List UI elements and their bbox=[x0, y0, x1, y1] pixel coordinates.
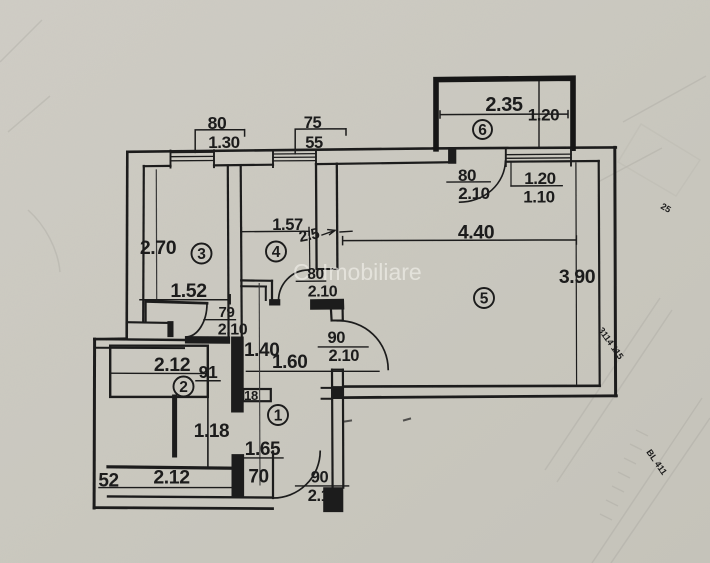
node room 6 circle bbox=[473, 120, 492, 139]
svg-text:2.12: 2.12 bbox=[154, 354, 191, 376]
wall between room 4 and room 5 bbox=[315, 164, 318, 269]
svg-text:3.90: 3.90 bbox=[559, 266, 596, 288]
svg-text:18: 18 bbox=[244, 388, 258, 403]
balcony outer walls bbox=[436, 78, 573, 149]
svg-text:80: 80 bbox=[458, 166, 476, 185]
hall / room5 wall with door 90 bbox=[330, 305, 333, 321]
svg-text:80: 80 bbox=[208, 113, 227, 133]
dimension line 1.65 bbox=[240, 457, 283, 459]
svg-text:91: 91 bbox=[199, 362, 218, 382]
svg-text:2.35: 2.35 bbox=[485, 94, 523, 116]
arrow 2.54 bbox=[322, 230, 352, 235]
window W2 55 top wall bbox=[273, 154, 316, 161]
svg-text:70: 70 bbox=[248, 466, 268, 487]
faint rotated text marks bbox=[596, 201, 672, 477]
svg-text:Imobiliare: Imobiliare bbox=[322, 259, 422, 285]
door arc D79 (room3) bbox=[186, 303, 207, 337]
room 4 bottom wall bbox=[241, 279, 272, 282]
node room 3 circle bbox=[192, 244, 212, 264]
dimension line 90 (door to room5) bbox=[318, 346, 368, 348]
extension line room4 vertical bbox=[308, 231, 310, 268]
svg-text:55: 55 bbox=[305, 134, 323, 152]
svg-text:2.12: 2.12 bbox=[153, 466, 190, 488]
svg-text:3: 3 bbox=[197, 246, 206, 263]
svg-text:1.18: 1.18 bbox=[194, 421, 229, 442]
room 3 bottom wall bbox=[146, 301, 207, 303]
svg-text:2.10: 2.10 bbox=[329, 347, 360, 365]
dimension line 1.52 bbox=[140, 295, 230, 304]
svg-text:1.65: 1.65 bbox=[245, 439, 281, 460]
node room 2 circle bbox=[174, 377, 194, 397]
svg-text:2: 2 bbox=[179, 379, 188, 396]
svg-text:6: 6 bbox=[478, 122, 487, 139]
svg-text:90: 90 bbox=[311, 468, 329, 486]
door arc D90 (hall to room5) bbox=[337, 321, 388, 370]
wire: left outer wall room 3 bbox=[125, 152, 128, 339]
extension line 3.90 vertical bbox=[575, 163, 578, 384]
svg-text:2.70: 2.70 bbox=[140, 237, 177, 259]
dimension line 80 balcony door bbox=[447, 181, 490, 183]
door D80 left jamb foot bbox=[270, 300, 280, 305]
svg-text:1.52: 1.52 bbox=[170, 280, 207, 302]
dimension line 79 bbox=[204, 319, 235, 321]
svg-text:75: 75 bbox=[304, 114, 322, 132]
wire: outer top wall bbox=[128, 147, 616, 151]
wire: bottom outer wall room 5 bbox=[343, 396, 616, 398]
room 2 lower shaft walls bbox=[172, 397, 177, 455]
room 2 bottom wall lines bbox=[108, 467, 235, 468]
wall block hall top-right (door 80 jamb to room5 wall) bbox=[311, 299, 344, 309]
dimension lines 1.20/1.10 window bbox=[511, 185, 562, 187]
svg-text:2.10: 2.10 bbox=[218, 322, 248, 339]
svg-text:1.20: 1.20 bbox=[528, 106, 560, 125]
node room 5 circle bbox=[474, 288, 494, 308]
svg-text:90: 90 bbox=[328, 329, 346, 347]
dimension line 1.60 hall bbox=[246, 370, 379, 372]
dimension bracket 75/55 bbox=[295, 129, 346, 154]
wire: right outer wall room 5 bbox=[613, 147, 617, 395]
hall left wall black band bbox=[232, 337, 244, 412]
svg-text:5: 5 bbox=[480, 291, 489, 308]
svg-text:2.10: 2.10 bbox=[308, 284, 338, 301]
junction cross left extension bbox=[322, 388, 332, 399]
svg-text:4: 4 bbox=[272, 244, 281, 261]
window W1 1.30 top wall bbox=[171, 152, 215, 161]
wire: left inner wall room 3 bbox=[142, 166, 145, 322]
door arc D80 (room4) bbox=[279, 270, 309, 301]
pen marks bbox=[344, 418, 411, 421]
svg-text:2.10: 2.10 bbox=[458, 184, 490, 203]
texts: dimensions bbox=[98, 94, 595, 505]
room 5 bottom wall inner bbox=[344, 384, 600, 387]
room 2 top wall bbox=[94, 337, 126, 340]
room 5 right wall inner bbox=[599, 161, 600, 386]
entry door arc bbox=[273, 451, 320, 498]
dimension line 1.57 bbox=[241, 227, 309, 235]
svg-text:1.20: 1.20 bbox=[524, 169, 556, 188]
balcony door jamb cap bbox=[449, 148, 456, 164]
extension line room3 vertical 2.70 bbox=[155, 170, 157, 300]
svg-text:1.30: 1.30 bbox=[208, 133, 240, 152]
svg-text:1: 1 bbox=[274, 408, 283, 425]
svg-text:52: 52 bbox=[98, 470, 118, 491]
room 2 left outer wall bbox=[93, 339, 97, 508]
wall stub 18 bbox=[243, 389, 271, 401]
dimension line 2.12 (room 2) bbox=[110, 372, 208, 374]
svg-text:79: 79 bbox=[219, 304, 235, 321]
svg-text:1.10: 1.10 bbox=[523, 188, 555, 207]
dimension line 90 entry bbox=[296, 485, 349, 487]
balcony dimension line 2.35 bbox=[440, 111, 568, 118]
dimension line 80 (room4 door) bbox=[296, 280, 325, 282]
svg-text:1.60: 1.60 bbox=[272, 352, 307, 373]
balcony divider line bbox=[538, 82, 540, 149]
entry door bottom: stub right bbox=[324, 488, 343, 512]
wall segment 70 (left of entry door) bbox=[232, 455, 244, 497]
door leaf D79 bbox=[185, 337, 229, 344]
svg-text:2.10: 2.10 bbox=[308, 487, 339, 505]
room number circles bbox=[174, 120, 495, 425]
wall jog left of door 79 bbox=[168, 322, 173, 337]
entry door leaf bbox=[272, 451, 274, 498]
dimension underline 91 bbox=[196, 380, 220, 382]
wall between room 3 and room 4 bbox=[227, 166, 230, 342]
svg-text:4.40: 4.40 bbox=[458, 222, 495, 244]
dimension bracket 80/1.30 bbox=[195, 130, 244, 153]
node room 1 circle bbox=[268, 405, 288, 425]
node room 4 circle bbox=[266, 242, 286, 262]
room 2 fixture rectangle bbox=[110, 346, 208, 397]
wire: top wall inner face segments bbox=[144, 165, 171, 168]
balcony door arc bbox=[460, 161, 506, 202]
dimension line 4.40 bbox=[343, 236, 577, 245]
balcony window 1.20 bbox=[506, 154, 571, 162]
extension line hall vertical bbox=[258, 284, 261, 485]
svg-text:C: C bbox=[293, 259, 310, 285]
